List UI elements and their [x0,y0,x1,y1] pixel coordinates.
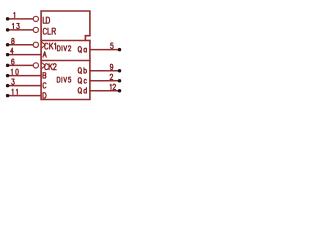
pin end dot pin 8 [6,43,10,47]
wire pin 13 /CLR [8,29,34,31]
pin end dot pin 3 [6,84,10,88]
divider line control/DIV2 sections [41,40,90,42]
wire pin 10 B [8,75,41,77]
wire pin 3 C [8,85,41,87]
wire pin 4 A [8,54,41,56]
inversion bubble pin CK2 [33,63,38,68]
wire pin 9 Qb [90,70,119,72]
pin end dot pin 11 [6,94,10,98]
wire pin 8 CK1 [8,44,34,46]
pin number 9 [110,64,113,69]
pin end dot pin 1 [6,17,10,21]
divider line DIV2/DIV5 sections [41,60,90,62]
pin name B [43,73,46,78]
pin number 6 [12,59,15,64]
IC U1 74176 body outline with right-edge notch [41,11,90,100]
pin end dot pin 2 [118,79,122,83]
pin number 12 [110,84,116,89]
pin name CK1 [45,43,56,49]
pin end dot pin 4 [6,53,10,57]
pin name Qc [78,78,86,84]
inversion bubble pin /LD [33,16,38,21]
inversion bubble pin /CLR [33,27,38,32]
pin name Qb [78,68,86,74]
pin number 8 [12,38,15,43]
wire pin 6 CK2 [8,64,34,66]
wire pin 2 Qc [90,80,119,82]
pin name Qd [78,88,86,94]
section label DIV2 [57,46,70,51]
clock edge marker CK1 [42,42,46,48]
pin number 2 [110,74,113,79]
pin name A [43,52,46,57]
pin name C [43,83,46,88]
section label DIV5 [57,77,71,82]
pin number 3 [12,79,15,84]
pin name LD [43,17,49,23]
pin end dot pin 5 [118,48,122,52]
pin name CLR [43,28,55,34]
clock edge marker CK2 [42,63,46,69]
pin end dot pin 6 [6,64,10,68]
pin number 5 [111,43,114,48]
wire pin 12 Qd [90,90,119,92]
pin number 1 [13,12,16,17]
pin name Qa [78,47,86,53]
wire pin 5 Qa [90,49,119,51]
pin number 11 [12,89,17,94]
pin name D [43,93,46,98]
pin number 13 [13,23,20,28]
pin number 10 [11,69,18,74]
pin number 4 [11,48,14,53]
wire pin 11 D [8,95,41,97]
pin name CK2 [45,64,57,70]
inversion bubble pin CK1 [33,42,38,47]
pin end dot pin 9 [118,69,122,73]
pin end dot pin 10 [6,74,10,78]
pin end dot pin 13 [6,28,10,32]
wire pin 1 /LD [8,18,34,20]
pin end dot pin 12 [118,89,122,93]
